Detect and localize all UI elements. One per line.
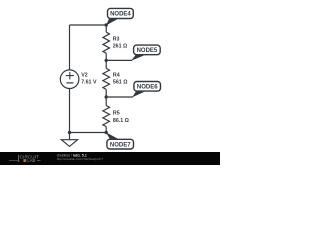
wire left vertical lower: [69, 89, 71, 133]
resistor R4: [103, 68, 110, 89]
junction ground: [68, 131, 71, 134]
junction node A (R3/R4): [105, 59, 108, 62]
svg-text:86.1 Ω: 86.1 Ω: [113, 118, 130, 124]
resistor R3: [103, 32, 110, 53]
svg-text:NODE4: NODE4: [110, 12, 131, 18]
watermark bar: [0, 152, 220, 165]
svg-text:http://circuitlab.com/c7am5uad: http://circuitlab.com/c7am5uadyn477: [57, 157, 104, 161]
wire top horizontal: [70, 24, 107, 26]
svg-text:R3: R3: [113, 36, 120, 42]
junction node bottom: [105, 131, 108, 134]
node label box NODE6: [134, 82, 161, 92]
svg-text:7.61 V: 7.61 V: [81, 79, 97, 85]
svg-text:LAB: LAB: [27, 158, 35, 163]
node NODE7 pointer: [106, 132, 119, 139]
svg-text:NODE6: NODE6: [137, 85, 158, 91]
svg-text:261 Ω: 261 Ω: [113, 44, 128, 50]
svg-text:R5: R5: [113, 110, 120, 116]
wire node6 stub: [106, 96, 133, 98]
wire R4-R5: [105, 89, 107, 105]
wire R5 bottom lead: [105, 127, 107, 133]
svg-text:NODE5: NODE5: [137, 48, 158, 54]
resistor R5: [103, 106, 110, 127]
ground stub: [69, 133, 71, 140]
node NODE4 pointer: [106, 18, 119, 26]
node label box NODE5: [134, 45, 161, 55]
voltage source V2: [60, 70, 79, 89]
svg-text:V2: V2: [81, 73, 88, 79]
junction node top: [105, 23, 108, 26]
wire right top lead: [105, 25, 107, 32]
node label box NODE7: [107, 139, 134, 149]
wire node5 stub: [106, 59, 132, 61]
junction node B (R4/R5): [105, 95, 108, 98]
wire bottom horizontal: [70, 132, 107, 134]
wire R3-R4: [105, 53, 107, 68]
ground: [61, 140, 77, 147]
svg-text:R4: R4: [113, 73, 120, 79]
svg-text:NODE7: NODE7: [110, 142, 131, 148]
CircuitLab logo: [9, 154, 41, 163]
node NODE6 pointer: [132, 91, 145, 97]
wire left vertical upper: [69, 25, 71, 70]
node NODE5 pointer: [131, 55, 144, 61]
svg-text:561 Ω: 561 Ω: [113, 80, 128, 86]
node label box NODE4: [108, 8, 134, 18]
